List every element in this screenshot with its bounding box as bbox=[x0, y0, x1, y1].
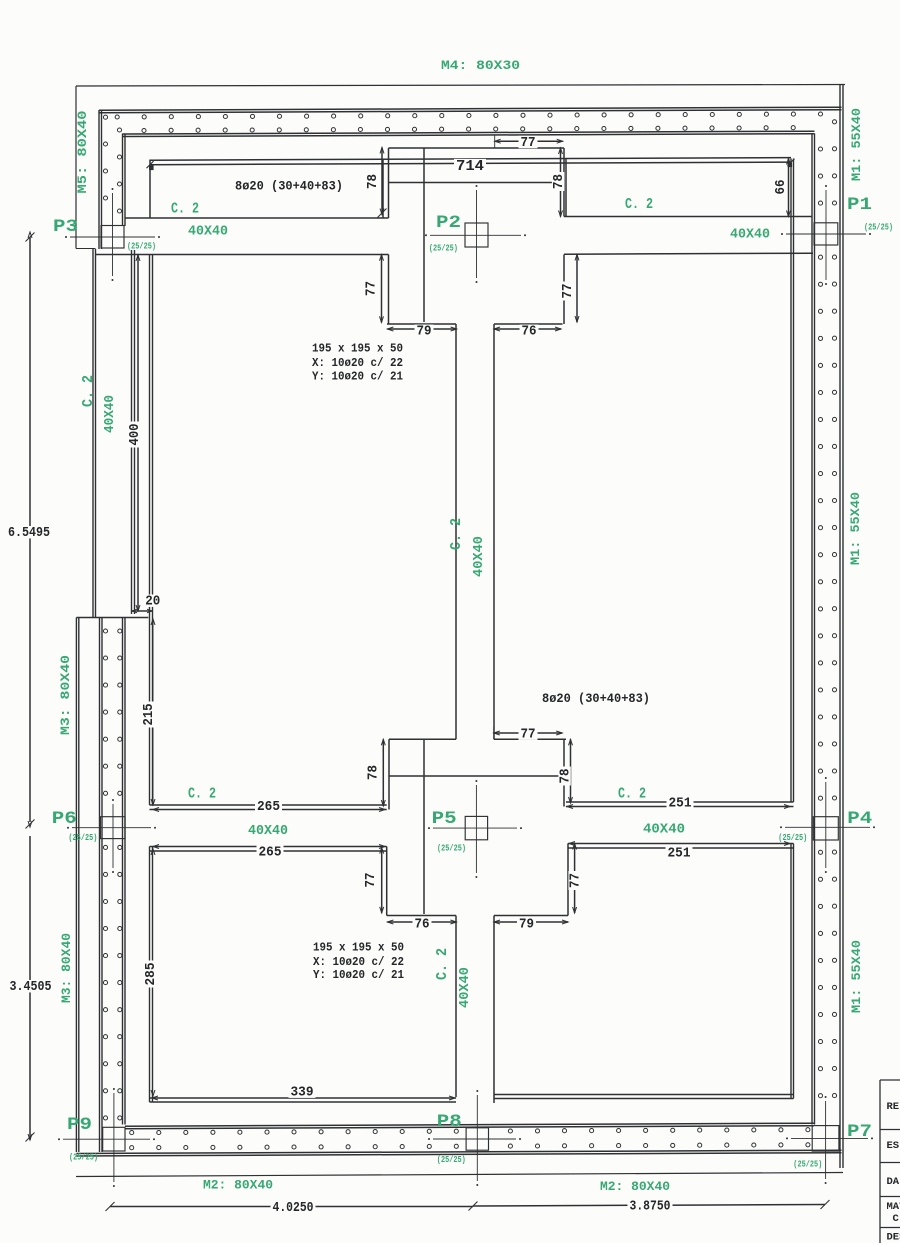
rebar dowel circles right band column B bbox=[832, 120, 836, 124]
svg-text:P7: P7 bbox=[847, 1122, 872, 1142]
wall line below P3 outer bbox=[92, 249, 94, 618]
svg-text:M1: 55X40: M1: 55X40 bbox=[849, 940, 864, 1013]
svg-text:714: 714 bbox=[456, 158, 484, 175]
svg-text:8ø20 (30+40+83): 8ø20 (30+40+83) bbox=[235, 180, 343, 194]
rebar dowel circles bottom band row A bbox=[130, 1131, 134, 1135]
svg-text:(25/25): (25/25) bbox=[68, 833, 97, 843]
column P2 bbox=[465, 223, 488, 247]
beam C.2 centre vertical outline bbox=[455, 324, 457, 739]
svg-text:3.8750: 3.8750 bbox=[630, 1200, 671, 1215]
svg-text:195 x 195 x 50: 195 x 195 x 50 bbox=[313, 941, 404, 955]
svg-text:285: 285 bbox=[144, 963, 159, 986]
wall footing M2 inner edge (bottom band) bbox=[125, 1123, 814, 1126]
column P4 bbox=[813, 817, 838, 840]
svg-text:40X40: 40X40 bbox=[643, 822, 685, 838]
svg-text:76: 76 bbox=[415, 918, 430, 933]
rebar end marker top-right box bbox=[788, 163, 793, 168]
rebar dowel circles right band column A bbox=[818, 147, 822, 151]
svg-text:77: 77 bbox=[521, 136, 536, 151]
svg-text:77: 77 bbox=[521, 728, 536, 743]
wall M3 top edge bbox=[76, 617, 148, 619]
svg-text:(25/25): (25/25) bbox=[864, 223, 893, 233]
svg-text:79: 79 bbox=[417, 325, 432, 340]
rebar dowel circles bottom band row B bbox=[130, 1146, 134, 1150]
dim 76 below P2 bbox=[494, 328, 561, 330]
svg-text:C. 2: C. 2 bbox=[448, 518, 465, 550]
bay upper-left outline bbox=[149, 255, 151, 805]
svg-text:78: 78 bbox=[366, 174, 381, 189]
svg-text:251: 251 bbox=[668, 847, 691, 862]
svg-text:265: 265 bbox=[259, 846, 282, 861]
svg-text:(25/25): (25/25) bbox=[69, 1153, 98, 1163]
dim 77 lower-right notch P2 bbox=[576, 255, 578, 323]
wall footing M1 inner edge bbox=[811, 134, 813, 1125]
svg-text:3.4505: 3.4505 bbox=[10, 980, 52, 995]
svg-text:40X40: 40X40 bbox=[471, 536, 487, 577]
svg-text:251: 251 bbox=[669, 797, 692, 812]
dim 265 lower bbox=[153, 845, 159, 849]
svg-text:DA: DA bbox=[887, 1176, 900, 1188]
wall M3 inner edge bbox=[122, 618, 124, 1125]
svg-text:76: 76 bbox=[522, 325, 537, 340]
svg-text:C. 2: C. 2 bbox=[434, 948, 451, 980]
svg-text:P9: P9 bbox=[67, 1115, 92, 1135]
svg-text:(25/25): (25/25) bbox=[127, 242, 156, 252]
svg-text:M3: 80X40: M3: 80X40 bbox=[59, 933, 74, 1003]
svg-text:P8: P8 bbox=[437, 1112, 462, 1132]
column P5 bbox=[465, 816, 487, 839]
svg-text:339: 339 bbox=[291, 1086, 314, 1101]
svg-text:RE: RE bbox=[887, 1101, 900, 1113]
svg-text:400: 400 bbox=[128, 424, 143, 446]
wall footing M1 outer edge (right band) bbox=[839, 85, 841, 1168]
svg-text:6.5495: 6.5495 bbox=[8, 526, 50, 541]
dim 6.5495 overall left bbox=[29, 237, 31, 822]
svg-text:M1: 55X40: M1: 55X40 bbox=[848, 492, 863, 565]
svg-text:M2: 80X40: M2: 80X40 bbox=[203, 1178, 273, 1193]
svg-text:MAT: MAT bbox=[887, 1201, 900, 1213]
svg-text:C: C bbox=[893, 1213, 900, 1225]
svg-text:P2: P2 bbox=[436, 213, 461, 233]
rebar dowel circles top band row 1 bbox=[115, 115, 119, 119]
dim 215 bbox=[152, 619, 154, 805]
dim 20 bbox=[132, 610, 152, 612]
dim 714 line bbox=[150, 162, 791, 165]
rebar dowel circles top band row 2 bbox=[142, 128, 146, 132]
svg-text:(25/25): (25/25) bbox=[437, 844, 466, 854]
dim 77 lower-left notch P2 bbox=[381, 255, 383, 323]
svg-text:40X40: 40X40 bbox=[188, 224, 228, 240]
svg-text:215: 215 bbox=[142, 704, 157, 726]
wall M3 outer edge (left lower band) bbox=[75, 618, 77, 1153]
svg-text:P1: P1 bbox=[847, 195, 872, 215]
column P6 bbox=[100, 817, 125, 839]
dim 285 bbox=[144, 961, 156, 988]
svg-text:(25/25): (25/25) bbox=[437, 1155, 466, 1165]
bay lower-right outline bbox=[790, 844, 792, 1099]
svg-text:C. 2: C. 2 bbox=[80, 375, 97, 407]
column P3 bbox=[101, 226, 124, 249]
svg-text:77: 77 bbox=[569, 873, 584, 888]
svg-text:8ø20 (30+40+83): 8ø20 (30+40+83) bbox=[542, 692, 650, 706]
dim 79 below P2 bbox=[387, 328, 456, 330]
svg-text:(25/25): (25/25) bbox=[778, 833, 807, 843]
svg-text:(25/25): (25/25) bbox=[793, 1160, 822, 1170]
pad footing P2 outline 195x195 bbox=[389, 147, 565, 149]
svg-text:DES: DES bbox=[887, 1232, 900, 1243]
svg-text:78: 78 bbox=[367, 765, 382, 780]
wall footing M5 outer edge (left top band) bbox=[98, 110, 100, 249]
svg-text:79: 79 bbox=[519, 918, 534, 933]
dim 78 left of P2 bbox=[381, 148, 383, 215]
dim 78 left of P5 bbox=[382, 739, 384, 806]
dim 251 upper bbox=[567, 805, 573, 809]
svg-text:77: 77 bbox=[364, 873, 379, 888]
svg-text:(25/25): (25/25) bbox=[429, 244, 458, 254]
dim 265 upper bbox=[153, 808, 159, 812]
dim 339 bbox=[152, 1096, 158, 1100]
svg-text:C. 2: C. 2 bbox=[625, 196, 653, 213]
svg-text:M2: 80X40: M2: 80X40 bbox=[600, 1179, 670, 1194]
rebar end marker top-left box bbox=[149, 166, 154, 171]
bay upper-right outline bbox=[790, 159, 792, 803]
svg-text:P3: P3 bbox=[53, 217, 78, 237]
svg-text:78: 78 bbox=[552, 174, 567, 189]
dim 77 lower-left notch P5 bbox=[381, 848, 383, 913]
svg-text:Y: 10ø20 c/ 21: Y: 10ø20 c/ 21 bbox=[313, 968, 404, 982]
drawing border bottom bbox=[76, 1173, 843, 1177]
beam C.2 top detail box left (8o20) bbox=[150, 158, 791, 161]
svg-text:M5: 80X40: M5: 80X40 bbox=[75, 110, 90, 193]
dim 66 in right box bbox=[788, 159, 790, 217]
svg-text:X: 10ø20 c/ 22: X: 10ø20 c/ 22 bbox=[313, 955, 404, 969]
rebar dowel circles left band top section bbox=[103, 115, 107, 119]
wall footing M2 outer edge bbox=[76, 1150, 841, 1153]
column P7 bbox=[812, 1126, 839, 1152]
svg-text:265: 265 bbox=[257, 800, 280, 815]
title block border bbox=[879, 1080, 881, 1243]
dim 77 top at P5 bbox=[494, 732, 562, 734]
svg-text:77: 77 bbox=[365, 281, 380, 296]
beam C.2 top detail box right (8o20) bbox=[565, 159, 567, 217]
dim 76 below P5 bbox=[387, 921, 456, 923]
svg-text:P5: P5 bbox=[432, 809, 457, 829]
drawing border left upper bbox=[75, 86, 77, 249]
svg-text:40X40: 40X40 bbox=[457, 967, 473, 1008]
pad footing P5 outline 195x195 bbox=[389, 738, 456, 740]
svg-text:77: 77 bbox=[561, 284, 576, 299]
wall line in M3 band continuation bbox=[99, 618, 101, 1153]
svg-text:66: 66 bbox=[774, 180, 789, 195]
wall line below P3 inner bbox=[131, 250, 133, 614]
dim 4.0250 bottom bbox=[110, 1206, 473, 1208]
dim 3.8750 bottom bbox=[473, 1205, 825, 1207]
svg-text:X: 10ø20 c/ 22: X: 10ø20 c/ 22 bbox=[312, 356, 403, 370]
wall footing M4 outer edge (top band) bbox=[99, 107, 842, 110]
svg-text:P4: P4 bbox=[847, 809, 872, 829]
svg-text:195 x 195 x 50: 195 x 195 x 50 bbox=[312, 342, 403, 356]
drawing border step at P3 bbox=[76, 248, 96, 250]
column P9 bbox=[103, 1127, 125, 1151]
svg-text:C. 2: C. 2 bbox=[188, 786, 216, 803]
dim 77 lower-right notch P5 bbox=[574, 844, 576, 914]
svg-text:78: 78 bbox=[559, 769, 574, 784]
drawing border top bbox=[76, 85, 845, 87]
dim 3.4505 overall left bbox=[29, 836, 31, 1140]
svg-text:M3: 80X40: M3: 80X40 bbox=[58, 655, 73, 735]
svg-text:P6: P6 bbox=[52, 809, 77, 829]
svg-text:C. 2: C. 2 bbox=[171, 201, 199, 218]
dim 400 left beam bbox=[137, 255, 139, 611]
svg-text:40X40: 40X40 bbox=[730, 227, 770, 243]
svg-text:ES: ES bbox=[887, 1140, 900, 1152]
svg-text:4.0250: 4.0250 bbox=[273, 1201, 314, 1216]
wall footing M4 inner edge bbox=[123, 131, 815, 134]
column P1 bbox=[814, 223, 838, 245]
svg-text:20: 20 bbox=[145, 595, 160, 610]
column P8 bbox=[466, 1128, 488, 1150]
dim 251 lower bbox=[569, 842, 575, 846]
svg-text:C. 2: C. 2 bbox=[618, 786, 646, 803]
dim 77 top at P2 bbox=[495, 140, 563, 142]
svg-text:40X40: 40X40 bbox=[102, 395, 118, 433]
bay lower-left outline bbox=[149, 847, 151, 1103]
dim 78 right of P5 bbox=[570, 739, 572, 803]
rebar dowel circles left band M3 section bbox=[103, 629, 107, 633]
svg-text:M4: 80X30: M4: 80X30 bbox=[441, 58, 520, 73]
wall footing M5 inner edge bbox=[122, 134, 124, 227]
svg-text:40X40: 40X40 bbox=[248, 823, 288, 839]
svg-text:Y: 10ø20 c/ 21: Y: 10ø20 c/ 21 bbox=[312, 370, 403, 384]
dim 78 right of P2 bbox=[560, 148, 562, 217]
dim 79 below P5 bbox=[494, 921, 568, 923]
svg-text:M1: 55X40: M1: 55X40 bbox=[849, 108, 864, 181]
